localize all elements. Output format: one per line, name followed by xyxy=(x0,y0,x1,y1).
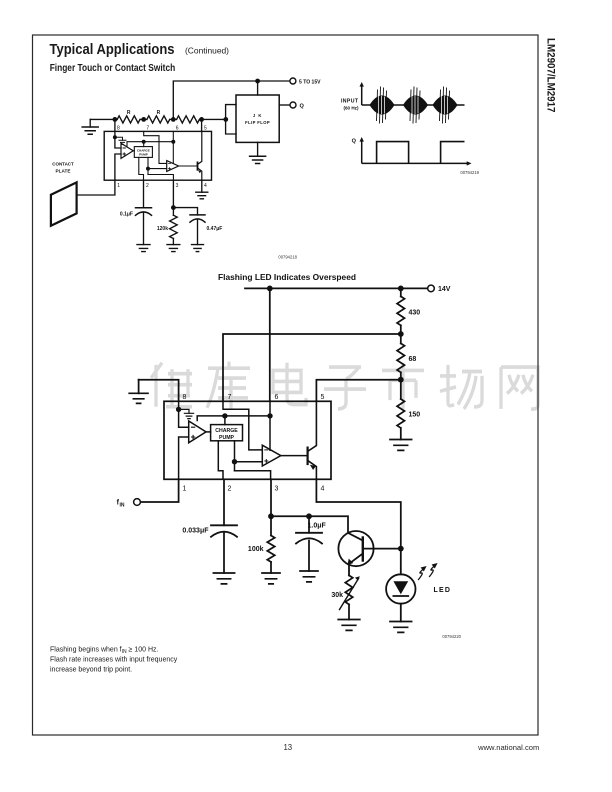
svg-text:6: 6 xyxy=(275,394,279,401)
Q square wave xyxy=(377,142,465,164)
page frame xyxy=(33,35,539,735)
charge pump block xyxy=(134,147,152,158)
svg-text:PUMP: PUMP xyxy=(139,153,148,157)
svg-text:Q: Q xyxy=(300,104,305,110)
wire pin1 to fIN xyxy=(141,479,179,502)
svg-text:CONTACT: CONTACT xyxy=(52,162,74,168)
node pin5 top xyxy=(199,117,204,122)
charge pump block xyxy=(211,425,243,441)
node pin7 top xyxy=(141,117,146,122)
terminal 14V xyxy=(428,285,451,293)
wire pin3 to C2 xyxy=(173,208,197,215)
ground 120k xyxy=(167,245,180,252)
ground C4 xyxy=(300,571,318,582)
svg-text:4: 4 xyxy=(204,183,207,189)
svg-text:120k: 120k xyxy=(157,226,168,232)
resistor R150 xyxy=(397,380,420,440)
Q axis xyxy=(352,137,364,163)
node bus CP top xyxy=(222,413,227,424)
svg-text:Flashing LED Indicates Overspe: Flashing LED Indicates Overspeed xyxy=(218,272,356,282)
svg-text:R: R xyxy=(127,110,131,116)
wire pin3 to CP right xyxy=(148,175,173,181)
wire pin8 inside xyxy=(176,401,181,412)
svg-text:5 TO 15V: 5 TO 15V xyxy=(299,79,321,85)
svg-text:LM2907/LM2917: LM2907/LM2917 xyxy=(545,38,557,113)
IC U3 LM2917 outline xyxy=(164,401,331,479)
ground R100k xyxy=(262,573,280,584)
svg-text:Finger Touch or Contact Switch: Finger Touch or Contact Switch xyxy=(50,63,176,74)
flip-flop input notch xyxy=(226,105,236,134)
svg-text:30k: 30k xyxy=(331,592,343,599)
ground LED xyxy=(390,622,412,633)
node rail right xyxy=(398,286,404,292)
node 430/68 xyxy=(398,331,404,337)
wire pin8 into IC xyxy=(113,119,117,139)
wire pin8 to op-amp xyxy=(115,137,121,148)
svg-text:Flash rate increases with inpu: Flash rate increases with input frequenc… xyxy=(50,657,178,664)
burst 2 xyxy=(403,87,428,124)
terminal fIN xyxy=(117,499,141,509)
burst 3 xyxy=(433,87,458,124)
svg-text:Q: Q xyxy=(352,139,357,145)
svg-text:www.national.com: www.national.com xyxy=(477,743,539,752)
wire pin7 internal xyxy=(144,131,167,163)
svg-text:100k: 100k xyxy=(248,546,264,553)
node supply to JK xyxy=(255,79,260,95)
wire top resistor row xyxy=(90,118,226,120)
wire comparator out xyxy=(281,455,308,457)
watermark xyxy=(151,362,538,409)
svg-text:0.47μF: 0.47μF xyxy=(207,226,223,232)
IC U1 LM2907 outline xyxy=(104,131,211,180)
contact plate xyxy=(51,182,77,225)
svg-text:7: 7 xyxy=(228,394,232,401)
terminal 5 TO 15V xyxy=(290,78,321,85)
wire comparator out xyxy=(179,165,198,167)
op-amp A1 xyxy=(121,143,133,158)
Q baseline with arrow xyxy=(362,161,472,165)
pin labels top xyxy=(183,394,325,401)
wire node to pin5 xyxy=(316,380,400,402)
wire pin4 to LED node xyxy=(316,479,400,548)
sidebar part number xyxy=(545,38,557,113)
flip-flop U2 JK xyxy=(236,95,279,142)
ground pin4 xyxy=(196,180,208,199)
LED light arrows xyxy=(419,563,438,580)
wire pin2 to CP bottom xyxy=(218,441,223,480)
input signal baseline xyxy=(362,104,465,106)
internal ground ref xyxy=(115,137,126,144)
node bus pin6 xyxy=(267,401,272,450)
op-amp A3 xyxy=(189,421,206,443)
pin labels top xyxy=(117,126,207,132)
capacitor C4 1.0uF xyxy=(296,516,327,571)
transistor Q3 xyxy=(338,531,400,575)
ground left xyxy=(82,119,98,134)
svg-text:00794220: 00794220 xyxy=(442,634,461,639)
svg-text:Flashing begins when fIN ≥ 100: Flashing begins when fIN ≥ 100 Hz. xyxy=(50,647,159,656)
svg-text:J K: J K xyxy=(253,113,263,118)
svg-text:LED: LED xyxy=(434,587,452,594)
node pin8 top xyxy=(113,117,118,122)
footnotes xyxy=(50,647,178,674)
node JK input xyxy=(223,117,228,122)
wire pin1 to op-amp plus xyxy=(115,154,121,180)
wire opamp out to CP xyxy=(206,431,211,433)
svg-text:R: R xyxy=(157,110,161,116)
pin labels bottom xyxy=(183,486,325,493)
terminal Q output xyxy=(279,102,304,110)
resistor R430 xyxy=(397,288,420,334)
ground below flip-flop xyxy=(250,142,266,163)
wire supply rail xyxy=(173,81,289,119)
svg-text:CHARGE: CHARGE xyxy=(215,428,238,434)
resistor (right unlabeled) xyxy=(177,116,200,123)
waveform diagram xyxy=(341,82,480,175)
wire ground to pin8 xyxy=(139,380,179,402)
resistor R2 120k xyxy=(157,215,177,244)
node LED top xyxy=(398,546,404,552)
resistor R68 xyxy=(397,334,416,380)
capacitor C3 0.033uF xyxy=(182,525,237,573)
wire 14V rail xyxy=(245,287,427,289)
svg-text:PUMP: PUMP xyxy=(219,435,235,441)
svg-text:13: 13 xyxy=(283,743,292,752)
node bus pin6 xyxy=(171,131,175,163)
wire pin8 to op-amp minus xyxy=(179,409,189,427)
node 68/150 xyxy=(398,377,404,383)
transistor Q1 xyxy=(198,131,202,180)
svg-text:0.1μF: 0.1μF xyxy=(120,212,133,218)
circuit 2: flashing LED indicates overspeed xyxy=(117,272,462,639)
svg-text:PLATE: PLATE xyxy=(56,169,72,175)
svg-text:FLIP FLOP: FLIP FLOP xyxy=(245,120,270,125)
ground C1 xyxy=(137,245,150,252)
LED D1 xyxy=(386,549,415,622)
wire pin1 to plate xyxy=(77,180,115,195)
comparator A4 xyxy=(262,445,281,466)
capacitor C1 0.1uF xyxy=(120,208,152,245)
svg-text:Typical Applications: Typical Applications xyxy=(50,42,175,58)
svg-text:150: 150 xyxy=(409,412,421,419)
capacitor C2 0.47uF xyxy=(190,215,222,245)
svg-text:1: 1 xyxy=(183,486,187,493)
svg-text:INPUT: INPUT xyxy=(341,99,359,105)
pin labels bottom xyxy=(117,183,207,189)
svg-text:14V: 14V xyxy=(438,286,451,293)
figure number 00794220 xyxy=(442,634,461,639)
wire node to base xyxy=(271,513,348,533)
wire pin2 to CP bottom xyxy=(139,157,144,180)
label LED xyxy=(434,587,452,594)
node pin6 top xyxy=(171,117,176,122)
wire pin5 top xyxy=(201,119,203,131)
wire pin3 down xyxy=(171,180,176,215)
comparator A2 xyxy=(167,161,179,172)
wire pin2 down xyxy=(223,479,225,525)
wire node to pin7 xyxy=(223,334,401,401)
wire pin7 internal xyxy=(223,401,262,450)
svg-text:1: 1 xyxy=(117,183,120,189)
footer xyxy=(283,743,539,752)
resistor R (left) xyxy=(117,110,140,123)
svg-text:2: 2 xyxy=(146,183,149,189)
wire opamp out to CP xyxy=(133,150,134,152)
svg-text:2: 2 xyxy=(228,486,232,493)
svg-text:5: 5 xyxy=(321,394,325,401)
label contact plate xyxy=(52,162,74,175)
circuit 1: finger touch / contact switch xyxy=(51,78,321,260)
svg-text:00794219: 00794219 xyxy=(460,170,479,175)
wire pin1 to op-amp plus xyxy=(179,437,189,479)
label INPUT (60 Hz) xyxy=(341,99,359,111)
wire internal top bus xyxy=(197,416,270,421)
ground C2 xyxy=(192,245,204,252)
svg-text:430: 430 xyxy=(409,310,421,317)
svg-text:1.0μF: 1.0μF xyxy=(308,523,327,530)
transistor Q2 xyxy=(308,401,317,479)
internal ground ref xyxy=(179,409,194,418)
ground C3 xyxy=(213,573,234,584)
svg-text:3: 3 xyxy=(275,486,279,493)
svg-text:00794218: 00794218 xyxy=(278,255,297,260)
resistor R (middle) xyxy=(147,110,170,123)
wire pin3 to CP right xyxy=(235,471,271,480)
svg-text:0.033μF: 0.033μF xyxy=(182,528,209,535)
svg-text:4: 4 xyxy=(321,486,325,493)
node rail pin6 xyxy=(267,286,273,292)
wire pin6 riser xyxy=(269,288,271,401)
resistor R30k variable xyxy=(331,575,360,619)
svg-text:increase beyond trip point.: increase beyond trip point. xyxy=(50,667,132,674)
svg-text:(60 Hz): (60 Hz) xyxy=(343,106,359,111)
wire to comparator plus xyxy=(146,157,167,174)
ground top left xyxy=(129,380,148,404)
resistor R100k xyxy=(248,536,275,574)
svg-text:(Continued): (Continued) xyxy=(185,46,229,56)
title xyxy=(218,272,356,282)
wire internal top bus xyxy=(127,142,173,147)
figure number 00794219 xyxy=(460,170,479,175)
figure number 00794218 xyxy=(278,255,297,260)
wire pin3 down xyxy=(268,479,274,535)
svg-text:IN: IN xyxy=(120,503,125,509)
burst 1 xyxy=(370,87,395,124)
svg-text:68: 68 xyxy=(409,356,417,363)
wire to comparator plus xyxy=(232,441,262,471)
headings xyxy=(50,42,230,74)
svg-text:8: 8 xyxy=(183,394,187,401)
input axis xyxy=(360,82,364,105)
ground R30k xyxy=(338,620,360,631)
wire pin2 down xyxy=(143,180,145,208)
node bus CP xyxy=(142,140,146,147)
ground R150 xyxy=(390,440,412,451)
svg-text:3: 3 xyxy=(176,183,179,189)
